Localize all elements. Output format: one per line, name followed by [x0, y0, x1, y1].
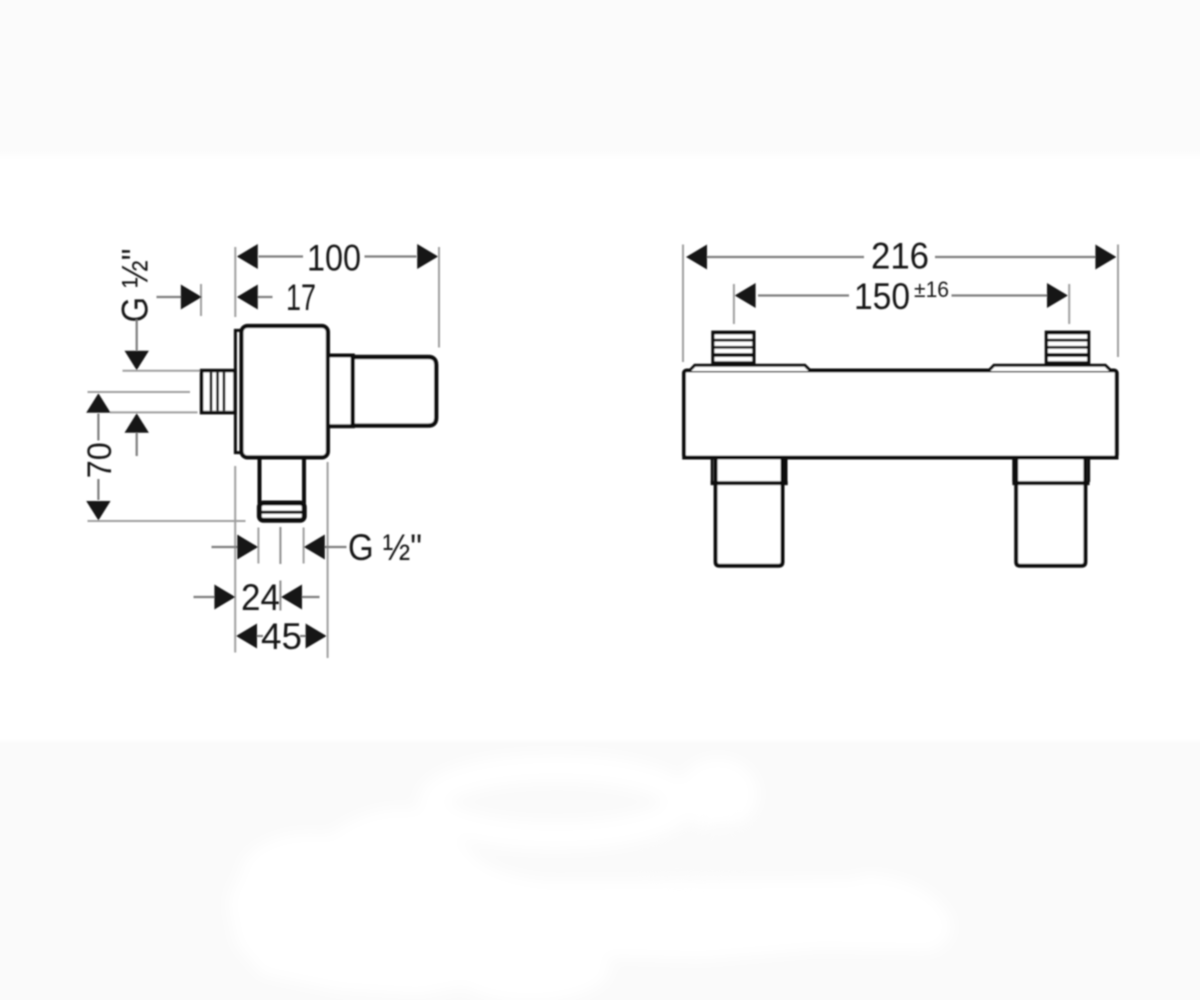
extension tick: pipe right (x=303.6) — [303, 528, 305, 564]
extension line: 216 left (x=683) — [682, 245, 684, 363]
arrow 216 left — [686, 245, 707, 270]
svg-text:17: 17 — [286, 277, 316, 318]
extension line: port top (y=370.7) — [123, 370, 201, 372]
arrow 45 left pointing left — [236, 624, 257, 649]
extension line: 100-dim right (x=439) — [438, 247, 440, 348]
svg-text:45: 45 — [261, 616, 302, 657]
side port — [202, 371, 235, 413]
svg-text:G ½": G ½" — [115, 249, 156, 323]
extension line: port bottom (y=412.4) — [110, 411, 198, 413]
dimension line 24 — [194, 596, 216, 598]
leader line from G 1/2 label — [136, 320, 138, 351]
right knob (threaded connector) — [1045, 331, 1091, 367]
outlet cap — [353, 357, 436, 426]
bottom gray band — [0, 739, 1200, 744]
arrow 45 right pointing right — [306, 624, 327, 649]
dimension line 17 — [157, 296, 182, 298]
svg-text:100: 100 — [307, 237, 361, 278]
bottom pipe right edge — [302, 458, 306, 504]
dimension line 70 — [97, 414, 99, 441]
port ridge 2 — [216, 373, 219, 411]
right leg — [1012, 458, 1089, 566]
left flange tab — [689, 365, 810, 371]
left knob (threaded connector) — [711, 331, 755, 367]
arrow 70 bottom pointing down — [86, 501, 110, 521]
pipe centerline (x=280.4) — [279, 527, 281, 564]
svg-text:G ½": G ½" — [348, 527, 422, 568]
extension line: 17-dim left (x=201) — [200, 284, 202, 316]
bottom pipe left edge — [258, 458, 262, 504]
pipe tip middle groove line — [258, 511, 306, 514]
extension line: 100-dim left (x=235.3) — [234, 247, 236, 317]
dimension line 216 — [707, 256, 865, 258]
arrow 24 right pointing left — [281, 585, 302, 610]
extension line: body right lower (x=327.6) — [327, 462, 329, 658]
back plate — [235, 330, 241, 452]
arrow 100 right — [417, 244, 438, 269]
top gray band — [0, 0, 1200, 151]
port ridge 1 — [210, 373, 213, 411]
arrow up to port bottom — [125, 413, 149, 433]
svg-text:70: 70 — [81, 442, 119, 478]
extension tick: pipe left (x=258.4) — [257, 528, 259, 564]
extension line: 216 right (x=1118) — [1117, 245, 1119, 358]
arrow 17 pointing left — [237, 285, 258, 310]
right flange tab — [988, 365, 1111, 371]
arrow 150 left — [735, 283, 756, 308]
extension line: pipe tip level (y=521) — [88, 520, 246, 522]
arrow 150 right — [1047, 283, 1068, 308]
tail of up arrow — [136, 433, 138, 456]
dimension line G 1/2 bottom — [212, 546, 238, 548]
outlet neck — [328, 356, 353, 427]
port ridge 3 — [222, 373, 225, 411]
left leg — [711, 458, 788, 566]
extension line: body left lower (x=235.2) — [234, 466, 236, 653]
svg-text:24: 24 — [241, 577, 280, 618]
body — [242, 326, 328, 457]
dimension line 150 — [758, 294, 849, 296]
arrow 70 top pointing up — [86, 393, 110, 413]
arrow 17 outer-left pointing right — [181, 285, 202, 310]
svg-text:216: 216 — [871, 236, 929, 277]
extension line: 150 right (x=1069.2) — [1068, 284, 1070, 324]
arrow G1/2 left pointing right — [237, 535, 258, 560]
arrow 216 right — [1095, 245, 1116, 270]
bar bottom edge redrawn over legs — [682, 456, 1118, 460]
arrow G1/2 right pointing left — [304, 535, 325, 560]
dimension line 100 — [259, 255, 304, 257]
arrow 100 left — [237, 244, 258, 269]
pipe tip collar — [259, 503, 304, 520]
arrow 24 left pointing right — [214, 585, 235, 610]
bar (mixer housing) — [684, 371, 1117, 458]
dimension line 45 — [257, 635, 264, 637]
extension line: port centerline (y=392) — [88, 391, 191, 393]
extension line: 150 left (x=733.9) — [733, 284, 735, 324]
faded product silhouette in bottom band — [228, 758, 952, 1000]
svg-text:±16: ±16 — [914, 277, 949, 302]
arrow down to port top — [125, 351, 149, 371]
svg-text:150: 150 — [854, 276, 910, 317]
